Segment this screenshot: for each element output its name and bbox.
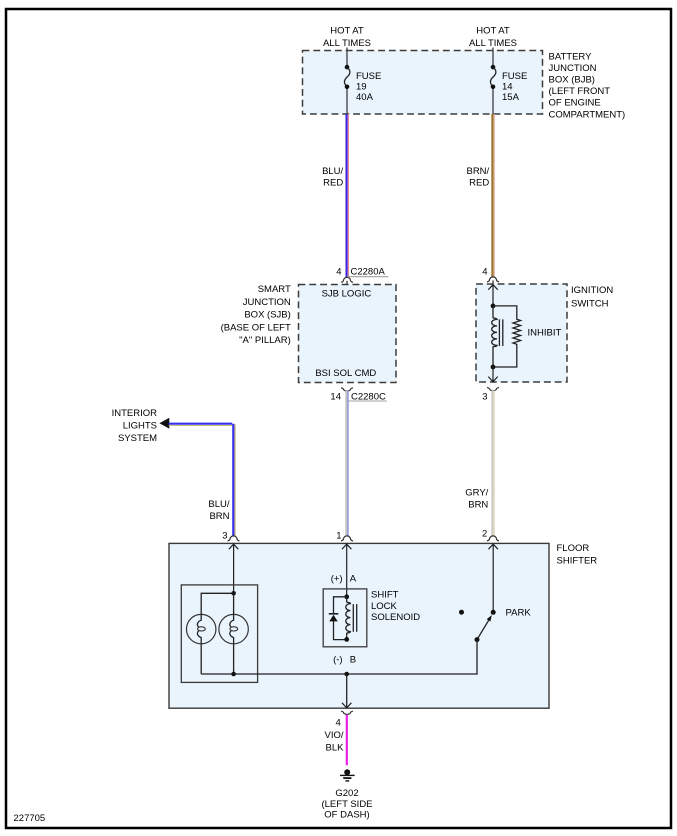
svg-text:BRN/: BRN/ <box>466 166 489 177</box>
arrow out of ignition switch <box>488 367 497 382</box>
arrow pin 1 into shifter <box>342 544 351 597</box>
svg-text:19: 19 <box>356 82 367 93</box>
ignition switch box <box>476 284 567 382</box>
diode D1 <box>329 597 347 640</box>
node bus lamp junction <box>231 672 236 677</box>
svg-text:(-): (-) <box>333 654 343 665</box>
wire into fuse 14 <box>492 48 494 67</box>
park switch open contact <box>459 610 464 615</box>
svg-text:15A: 15A <box>502 92 520 103</box>
svg-text:BLK: BLK <box>326 742 345 753</box>
label smart junction box <box>221 284 291 346</box>
svg-text:COMPARTMENT): COMPARTMENT) <box>549 109 626 120</box>
node INTERIOR LIGHTS SYSTEM <box>112 408 158 444</box>
ground G202 <box>340 769 355 781</box>
svg-text:4: 4 <box>336 717 341 728</box>
wire BRN/RED <box>466 114 494 277</box>
fuse 19 40A <box>344 65 381 103</box>
svg-text:SOLENOID: SOLENOID <box>371 612 420 623</box>
wire solenoid return to pin 4 <box>342 674 351 708</box>
svg-text:1: 1 <box>336 531 341 542</box>
pin 3 bump floor shifter <box>228 536 240 541</box>
wire BLU/RED <box>322 114 348 277</box>
svg-text:VIO/: VIO/ <box>324 730 343 741</box>
svg-text:BSI SOL CMD: BSI SOL CMD <box>315 368 376 379</box>
svg-text:4: 4 <box>482 267 487 278</box>
node A inhibit top junction <box>491 304 496 309</box>
inhibit coil L1 <box>492 306 503 367</box>
svg-text:227705: 227705 <box>14 813 46 824</box>
wire bottom bus <box>201 673 477 675</box>
svg-text:FUSE: FUSE <box>502 71 527 82</box>
svg-text:(LEFT SIDE: (LEFT SIDE <box>321 799 372 810</box>
svg-text:HOT AT: HOT AT <box>330 26 364 37</box>
svg-text:3: 3 <box>222 531 227 542</box>
svg-text:14: 14 <box>330 391 341 402</box>
svg-text:40A: 40A <box>356 92 374 103</box>
label (-) B <box>333 654 356 665</box>
label ignition switch <box>571 285 613 309</box>
pin 1 bump floor shifter <box>341 536 353 541</box>
wire VIO/BLK <box>324 715 346 765</box>
lamp 1 <box>187 614 216 643</box>
svg-text:3: 3 <box>482 391 487 402</box>
svg-text:BLU/: BLU/ <box>208 499 229 510</box>
svg-text:14: 14 <box>502 82 513 93</box>
pin 4 bump floor shifter bottom <box>341 711 353 714</box>
arrow pin 3 into shifter <box>229 544 238 593</box>
svg-text:RED: RED <box>469 178 489 189</box>
svg-text:FUSE: FUSE <box>356 71 381 82</box>
node bus solenoid junction <box>344 672 349 677</box>
svg-text:GRY/: GRY/ <box>465 487 488 498</box>
park switch blade <box>475 615 492 674</box>
lamp assembly box <box>181 585 257 683</box>
svg-text:4: 4 <box>336 267 341 278</box>
battery junction box (BJB) <box>303 51 543 115</box>
wire lamp 2 leads <box>233 593 235 674</box>
svg-text:JUNCTION: JUNCTION <box>549 63 597 74</box>
svg-text:B: B <box>350 654 356 665</box>
label G202 (LEFT SIDE OF DASH) <box>321 788 372 820</box>
svg-text:ALL TIMES: ALL TIMES <box>469 38 517 49</box>
svg-text:SYSTEM: SYSTEM <box>118 433 157 444</box>
svg-text:RED: RED <box>323 178 343 189</box>
svg-text:G202: G202 <box>335 788 358 799</box>
svg-text:(BASE OF LEFT: (BASE OF LEFT <box>221 322 291 333</box>
svg-text:(+): (+) <box>331 573 343 584</box>
svg-text:BRN: BRN <box>209 511 229 522</box>
svg-text:"A" PILLAR): "A" PILLAR) <box>239 335 291 346</box>
wire GRY/BRN <box>465 390 494 539</box>
wire GRY/LBU SJB to shifter pin 1 <box>336 391 348 542</box>
svg-text:BOX (BJB): BOX (BJB) <box>549 75 595 86</box>
solenoid coil <box>346 597 357 640</box>
arrow into ignition switch <box>488 285 497 306</box>
node solenoid bottom junction <box>344 637 349 642</box>
fuse 14 15A <box>490 65 527 103</box>
svg-text:JUNCTION: JUNCTION <box>243 297 291 308</box>
svg-text:LOCK: LOCK <box>371 601 398 612</box>
svg-text:SHIFT: SHIFT <box>371 590 399 601</box>
svg-text:SHIFTER: SHIFTER <box>557 556 598 567</box>
svg-text:BOX (SJB): BOX (SJB) <box>244 310 290 321</box>
wire lamp branch <box>201 593 233 674</box>
svg-text:BRN: BRN <box>468 500 488 511</box>
svg-text:PARK: PARK <box>506 608 532 619</box>
svg-text:OF DASH): OF DASH) <box>324 810 369 821</box>
label battery junction box <box>549 51 626 120</box>
lamp 2 <box>219 614 248 643</box>
park switch common contact <box>491 610 496 615</box>
svg-text:ALL TIMES: ALL TIMES <box>323 38 371 49</box>
svg-text:SJB LOGIC: SJB LOGIC <box>322 289 372 300</box>
pin 4 ignition switch <box>482 267 499 285</box>
resistor inhibit branch <box>493 306 521 367</box>
svg-text:C2280A: C2280A <box>351 267 386 278</box>
label floor shifter <box>557 543 598 567</box>
svg-text:BLU/: BLU/ <box>322 166 343 177</box>
pin 4 connector C2280A <box>336 267 388 285</box>
node HOT AT ALL TIMES (right) <box>469 26 517 49</box>
wire fuse 19 to box edge <box>346 89 348 114</box>
svg-text:INHIBIT: INHIBIT <box>528 327 562 338</box>
svg-text:SWITCH: SWITCH <box>571 298 609 309</box>
svg-text:SMART: SMART <box>258 284 291 295</box>
svg-text:IGNITION: IGNITION <box>571 285 613 296</box>
floor shifter box <box>169 543 549 708</box>
shift lock solenoid box <box>323 589 367 647</box>
svg-text:FLOOR: FLOOR <box>557 543 590 554</box>
wire BLU/BRN <box>169 424 235 542</box>
svg-text:A: A <box>350 573 357 584</box>
svg-text:INTERIOR: INTERIOR <box>112 408 158 419</box>
svg-text:LIGHTS: LIGHTS <box>123 421 157 432</box>
pin 3 ignition switch <box>482 388 499 403</box>
wire fuse 14 to box edge <box>492 89 494 114</box>
node lamp top junction <box>231 591 236 596</box>
node HOT AT ALL TIMES (left) <box>323 26 371 49</box>
label (+) A <box>331 573 357 584</box>
svg-text:HOT AT: HOT AT <box>476 26 510 37</box>
node B inhibit bottom junction <box>491 365 496 370</box>
smart junction box (SJB) <box>299 285 397 383</box>
arrow pin 2 into shifter <box>489 544 498 612</box>
pin 2 bump floor shifter <box>487 536 499 541</box>
node solenoid top junction <box>344 594 349 599</box>
pin 14 connector C2280C <box>330 388 386 403</box>
label shift lock solenoid <box>371 590 420 624</box>
wire into fuse 19 <box>346 48 348 67</box>
svg-text:2: 2 <box>482 529 487 540</box>
svg-text:(LEFT FRONT: (LEFT FRONT <box>549 86 611 97</box>
svg-text:BATTERY: BATTERY <box>549 51 593 62</box>
arrow to interior lights system <box>159 418 169 429</box>
svg-text:OF ENGINE: OF ENGINE <box>549 98 601 109</box>
